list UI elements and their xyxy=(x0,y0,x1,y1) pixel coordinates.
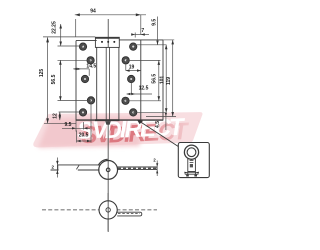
dim 14.5 arrows xyxy=(73,68,77,70)
dim 56.5 right line xyxy=(158,60,160,100)
dim 101 line xyxy=(165,45,167,113)
break mark xyxy=(76,165,79,170)
detail base arrows xyxy=(184,172,187,174)
svg-text:22.25: 22.25 xyxy=(52,21,58,34)
dim 4.5 line xyxy=(165,113,167,130)
hole row ref R2 xyxy=(126,59,161,61)
thickness arrows right xyxy=(156,163,158,167)
svg-text:20.5: 20.5 xyxy=(79,133,89,139)
right leaf outer edge xyxy=(162,40,164,121)
left leaf outer edge xyxy=(75,41,77,121)
hole row ref R4 xyxy=(126,100,162,102)
detail box xyxy=(178,143,209,178)
dim 125 arrows xyxy=(46,37,49,42)
dim 94 right extension xyxy=(140,15,142,35)
dim 7 arrows xyxy=(131,33,135,35)
dim 14.5 bracket xyxy=(88,69,90,76)
detail spring coil marks xyxy=(190,160,194,162)
barrel right edge xyxy=(118,47,120,119)
dim 22.25 arrows xyxy=(59,24,62,29)
detail leader arrowhead xyxy=(137,120,143,125)
thickness dim line right xyxy=(156,161,158,177)
screw hole L3 xyxy=(81,75,88,82)
hole row ref L2 xyxy=(58,59,91,61)
right leaf hidden dashes xyxy=(118,167,156,169)
dim 125 line xyxy=(47,37,49,123)
screw hole L2 xyxy=(87,57,94,64)
svg-text:56.5: 56.5 xyxy=(151,74,157,84)
hole col extension x83.5 xyxy=(83,122,85,130)
dim 101 arrows xyxy=(165,45,168,50)
right ref line y44.8 xyxy=(137,44,167,46)
dim 7 line xyxy=(135,34,150,36)
hinge bottom edge xyxy=(76,119,163,121)
svg-text:94: 94 xyxy=(90,9,96,15)
svg-text:4.5: 4.5 xyxy=(155,121,161,128)
hole row ref L5 xyxy=(59,111,80,113)
svg-text:12.5: 12.5 xyxy=(139,86,149,92)
plan view pin circle xyxy=(106,208,110,212)
right leaf edge-on bar xyxy=(117,167,157,170)
screw hole L5 xyxy=(79,109,86,116)
detail knuckle ring outer xyxy=(184,145,198,159)
side view pin circle xyxy=(106,168,110,172)
dim 12.5 line xyxy=(127,93,152,95)
dim 20.5 right extension xyxy=(90,105,92,143)
detail shaft foot left xyxy=(186,175,189,177)
right leaf fold line xyxy=(140,40,142,120)
plate top right extension xyxy=(163,39,174,41)
hole row ref L4 xyxy=(58,99,92,101)
dim 56.5 left arrows xyxy=(59,60,62,65)
dim 119 arrows xyxy=(171,40,174,45)
screw hole L4 xyxy=(87,97,94,104)
left leaf top edge xyxy=(76,40,97,42)
hole row ref L1 xyxy=(58,45,84,47)
watermark inner deep-pink band xyxy=(38,116,142,148)
barrel top cap outline xyxy=(95,37,119,47)
dim 94 left extension xyxy=(75,19,77,37)
detail shaft base band xyxy=(188,171,196,173)
dim 9.5 top line xyxy=(157,17,159,45)
dim 20.5 arrows xyxy=(77,140,81,143)
svg-text:7: 7 xyxy=(141,28,144,34)
hole row ref R5 xyxy=(133,112,166,114)
dim 4.5 arrow xyxy=(165,113,167,117)
screw hole R1 xyxy=(130,43,137,50)
cap pin dot center xyxy=(107,41,109,43)
barrel left edge xyxy=(96,47,98,119)
dim 12 line xyxy=(59,112,61,120)
dim 7 extension xyxy=(134,33,136,38)
detail leader line xyxy=(139,121,179,147)
cap top reference line xyxy=(43,36,95,38)
plan view knuckle circle xyxy=(99,201,117,219)
detail base dim line xyxy=(185,172,199,174)
barrel bottom tab xyxy=(105,121,111,125)
svg-text:2: 2 xyxy=(153,158,156,163)
watermark ribbon band xyxy=(33,112,202,147)
svg-text:56.5: 56.5 xyxy=(51,74,57,84)
dim 20.5 left extension xyxy=(76,131,78,143)
thickness dim line left xyxy=(56,158,58,178)
centerline across cap xyxy=(107,37,109,47)
cap pin dot left xyxy=(101,41,103,43)
barrel bottom cap xyxy=(95,119,120,121)
side view knuckle outer circle xyxy=(99,161,118,180)
plan view vertical centerline xyxy=(107,193,109,231)
right leaf top edge xyxy=(119,39,163,41)
dim 12.5 bracket xyxy=(130,83,132,95)
spring pin inner line right xyxy=(109,47,111,119)
dim 19 bracket xyxy=(125,64,127,71)
svg-text:125: 125 xyxy=(39,69,45,78)
plan view leaf outline xyxy=(116,212,142,216)
lower right ref line y116.5 xyxy=(146,116,176,118)
dim 20.5 line xyxy=(77,140,91,142)
dim 94 arrows xyxy=(75,13,80,16)
svg-text:9.5: 9.5 xyxy=(151,19,157,26)
dim 14.5 line xyxy=(73,68,89,70)
screw hole L1 xyxy=(79,43,86,50)
left leaf side profile xyxy=(51,165,100,170)
plan view leaf hidden dashes xyxy=(118,212,140,214)
svg-text:DIRECT: DIRECT xyxy=(104,114,187,145)
cap pin dot right xyxy=(113,41,115,43)
dim 125 bottom extension xyxy=(44,122,76,124)
dim 56.5 right arrows xyxy=(158,60,161,65)
screw hole R5 xyxy=(130,109,137,116)
barrel top cap thick top edge xyxy=(95,37,119,39)
svg-text:14.5: 14.5 xyxy=(86,63,96,69)
leaf wrap arc xyxy=(98,159,108,165)
dim 94 line xyxy=(75,14,146,16)
thickness arrows left xyxy=(56,161,58,165)
dim 12 arrows xyxy=(59,112,61,116)
leaf edge extension below xyxy=(75,121,77,132)
dim 22.25 line xyxy=(60,24,62,46)
dim 12.5 arrows xyxy=(127,93,131,96)
dim 9.5 bottom line xyxy=(62,127,90,129)
detail knuckle ring inner xyxy=(187,148,196,157)
screw hole R2 xyxy=(122,57,129,64)
spring pin inner line left xyxy=(105,47,107,119)
detail pin shaft xyxy=(185,159,199,174)
dim 19 arrows xyxy=(126,69,130,72)
plan view dashed centerline xyxy=(42,209,157,211)
svg-text:119: 119 xyxy=(166,77,172,85)
svg-text:9.5: 9.5 xyxy=(65,122,72,128)
dim 56.5 left line xyxy=(59,60,61,101)
dim 9.5 bottom arrows xyxy=(72,127,76,129)
dim 119 line xyxy=(172,40,174,117)
screw hole R3 xyxy=(128,75,135,82)
barrel centerline lower segment through side views xyxy=(107,120,109,232)
barrel centerline upper segment xyxy=(107,19,109,47)
dim 19 line xyxy=(126,70,141,72)
svg-text:12: 12 xyxy=(53,113,59,119)
screw hole R4 xyxy=(122,97,129,104)
svg-text:2: 2 xyxy=(52,165,55,170)
svg-text:101: 101 xyxy=(159,76,165,85)
detail shaft foot right xyxy=(194,175,197,177)
dim 9.5 top arrow xyxy=(156,41,158,45)
svg-text:19: 19 xyxy=(129,65,135,71)
